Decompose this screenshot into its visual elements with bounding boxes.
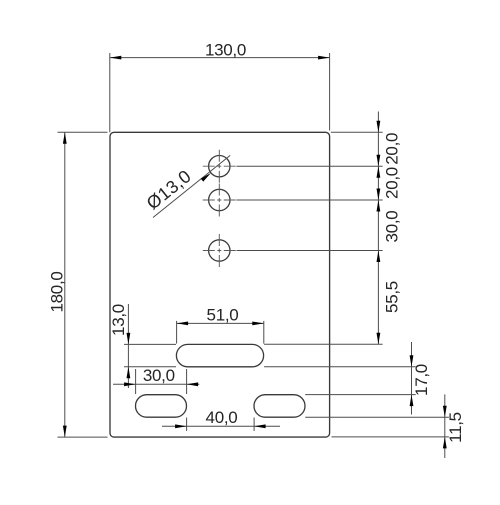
- centerline H2: [203, 184, 236, 217]
- dimension 51,0 extension lines: [177, 321, 264, 344]
- dimension 17,0 line: [411, 342, 413, 415]
- dimension 51,0 line: [177, 322, 264, 324]
- centerline H3: [203, 234, 236, 267]
- hole H1: [209, 156, 230, 177]
- dimension 11,5 line: [444, 394, 446, 458]
- dimension 40,0 line: [162, 425, 280, 427]
- dimension 130,0 line: [110, 57, 330, 59]
- svg-text:13,0: 13,0: [109, 304, 128, 336]
- dimension 180,0 line: [64, 132, 66, 437]
- dimension 17,0 arrows: [410, 355, 414, 367]
- svg-text:20,0: 20,0: [382, 133, 401, 165]
- svg-text:30,0: 30,0: [143, 366, 175, 385]
- right chain extension lines: [237, 132, 383, 344]
- dimension 51,0 arrows: [177, 322, 189, 326]
- slot S2 (30x13 left): [136, 395, 187, 418]
- dimension 11,5 arrows: [443, 406, 447, 418]
- svg-text:30,0: 30,0: [382, 211, 401, 243]
- plate outline: [110, 132, 330, 437]
- svg-text:20,0: 20,0: [382, 167, 401, 199]
- svg-text:40,0: 40,0: [206, 408, 238, 427]
- leader arrow: [201, 173, 211, 182]
- dimension 40,0 arrows: [175, 424, 187, 428]
- dimension 11,5 extension lines: [305, 417, 449, 437]
- dimension 17,0 extension lines: [264, 367, 416, 395]
- dimension 13,0 arrows: [126, 333, 130, 345]
- svg-text:51,0: 51,0: [207, 305, 239, 324]
- hole H3: [209, 240, 230, 261]
- right chain arrows: [377, 121, 381, 133]
- dimension 130,0 extension lines: [110, 53, 330, 132]
- svg-text:130,0: 130,0: [205, 40, 246, 59]
- svg-text:55,5: 55,5: [382, 281, 401, 313]
- dimension 30,0 line: [113, 383, 199, 385]
- svg-text:11,5: 11,5: [446, 412, 465, 443]
- centerline H1: [203, 150, 236, 183]
- hole H2: [209, 189, 230, 210]
- slot S3 (30x13 right): [254, 395, 305, 418]
- dimension 30,0 arrows: [124, 382, 136, 386]
- dimension 13,0 line: [127, 304, 129, 388]
- dimension 130,0 arrows: [110, 56, 122, 60]
- dimension 180,0 extension lines: [58, 132, 108, 437]
- svg-text:180,0: 180,0: [47, 271, 66, 312]
- svg-text:17,0: 17,0: [412, 364, 431, 396]
- dimension 40,0 extension lines: [187, 418, 255, 431]
- slot S1 (51x13): [176, 344, 263, 366]
- leader line for diameter: [153, 155, 230, 217]
- dimension 180,0 arrows: [63, 132, 67, 144]
- dimension 30,0 extension lines: [136, 369, 187, 394]
- right chain dimension line: [377, 112, 379, 345]
- dimension 13,0 extension lines: [124, 344, 176, 366]
